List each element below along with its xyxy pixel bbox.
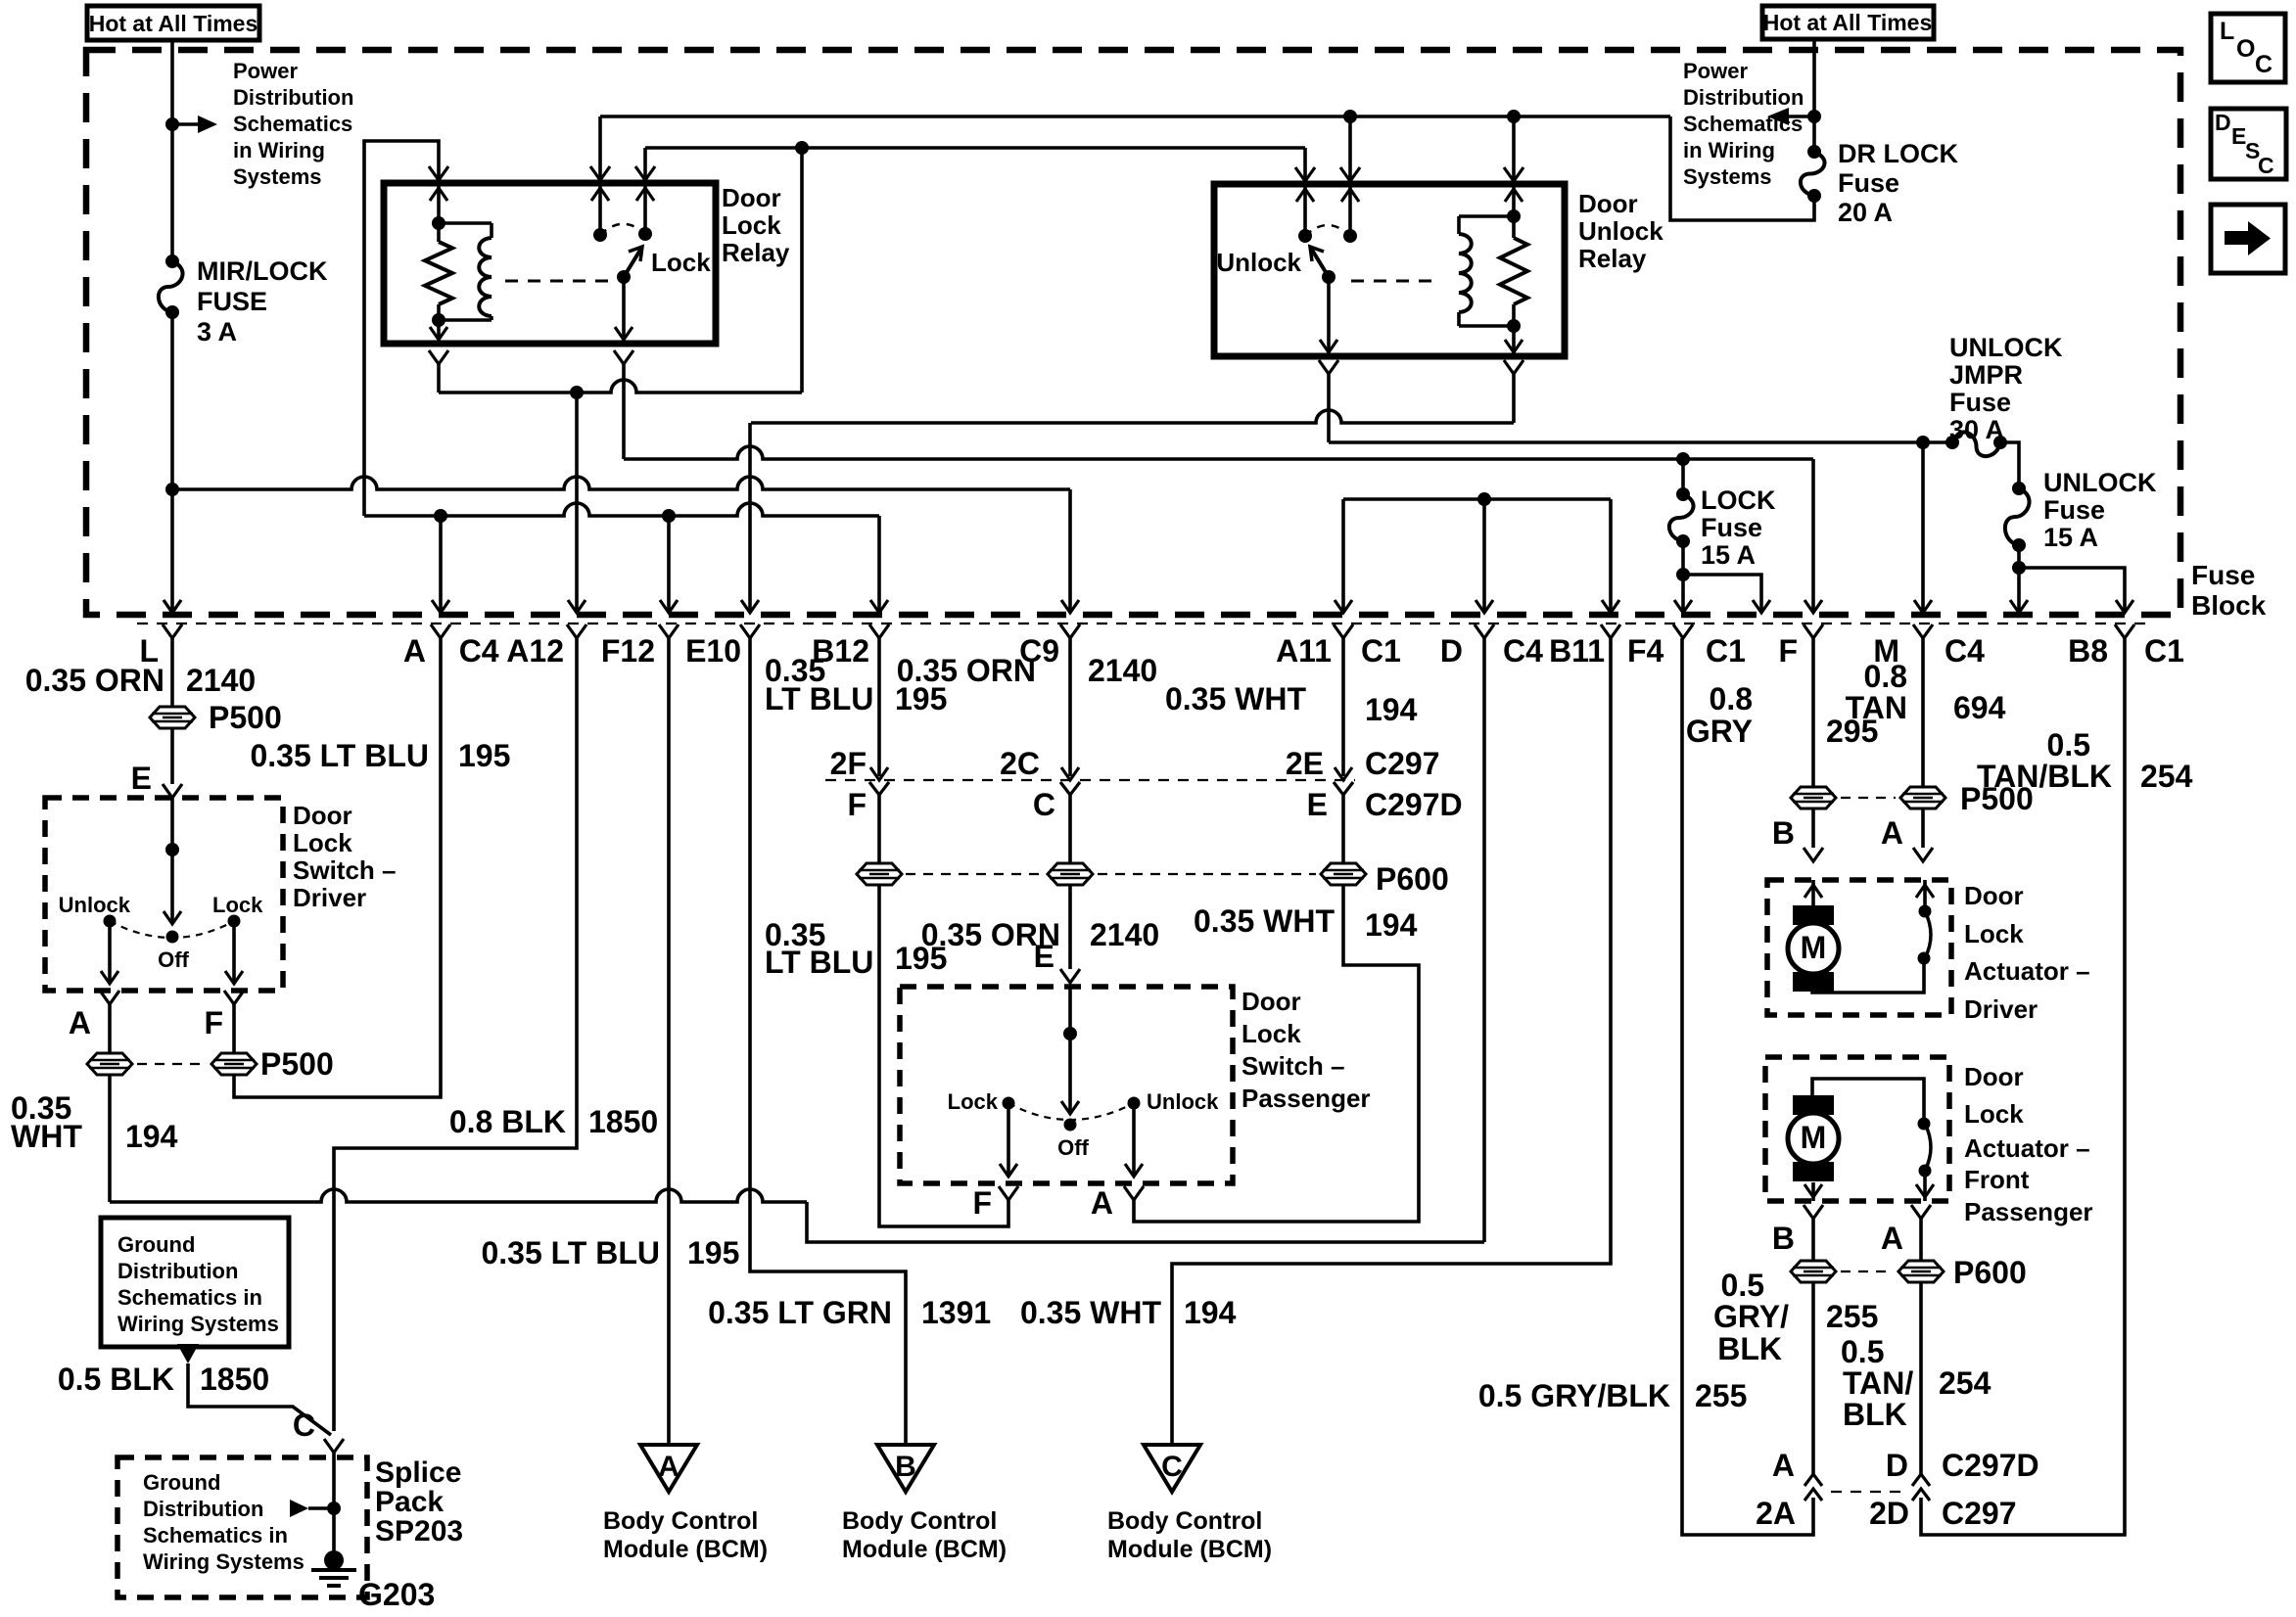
wire riser unlock coil pin: [1512, 116, 1516, 181]
svg-text:F: F: [847, 787, 867, 822]
svg-text:15 A: 15 A: [1701, 540, 1756, 570]
switch lock relay: contacts: [598, 183, 602, 235]
connector grommet P600 E: [1321, 863, 1366, 885]
svg-text:0.35 LT GRN: 0.35 LT GRN: [708, 1295, 892, 1330]
node junction to power distribution note: [165, 117, 179, 131]
switch box Door Lock Switch - Driver: [45, 798, 283, 991]
svg-text:C4: C4: [1945, 633, 1985, 669]
svg-text:Fuse: Fuse: [2191, 560, 2255, 590]
node junction bus 500: [165, 483, 179, 496]
wire pin L down to P500: [170, 638, 174, 707]
pin fork driver actuator A: [1913, 848, 1933, 861]
wire to P500 grommets: [108, 1004, 112, 1053]
svg-text:0.8: 0.8: [1864, 659, 1907, 694]
wire from pin B8/C1 to passenger actuator A: [1921, 638, 2125, 1535]
wire E10 0.35 LT GRN 1391 to BCM B: [750, 638, 906, 1445]
wire bus y401 coil to y151 riser: [437, 364, 441, 393]
svg-text:Door: Door: [1964, 881, 2024, 910]
svg-text:2D: 2D: [1869, 1496, 1909, 1531]
svg-text:C297: C297: [1365, 746, 1440, 781]
svg-text:TAN/: TAN/: [1843, 1365, 1913, 1401]
svg-text:Block: Block: [2191, 590, 2267, 621]
pin fork unlock relay contact1 top: [1295, 167, 1315, 181]
svg-text:Distribution: Distribution: [143, 1497, 263, 1521]
svg-text:C297: C297: [1942, 1496, 2017, 1531]
svg-text:UNLOCK: UNLOCK: [1949, 333, 2063, 362]
node tap C4A12 riser: [570, 386, 584, 399]
svg-text:Driver: Driver: [1964, 994, 2038, 1024]
svg-text:G203: G203: [358, 1577, 435, 1612]
lock relay coil pin wire: [437, 183, 441, 223]
switch box Door Lock Switch - Passenger: [900, 987, 1233, 1183]
pin fork unlock relay common bottom: [1319, 360, 1338, 374]
svg-text:2A: 2A: [1756, 1496, 1796, 1531]
dashed actuation link: [505, 280, 612, 283]
svg-text:Switch –: Switch –: [293, 855, 396, 885]
svg-text:2140: 2140: [186, 663, 256, 698]
svg-text:Pack: Pack: [375, 1486, 444, 1518]
svg-text:C: C: [2255, 51, 2273, 78]
svg-text:2140: 2140: [1090, 917, 1159, 952]
connector grommet P500 GRY: [1791, 787, 1836, 808]
svg-text:F12: F12: [601, 633, 655, 669]
splice pack pointer: [290, 1500, 308, 1517]
wire hot feed right: [1812, 39, 1816, 152]
svg-text:B: B: [1772, 1221, 1795, 1256]
svg-text:TAN: TAN: [1846, 690, 1907, 725]
svg-text:Door: Door: [1242, 987, 1301, 1016]
wire bus to lock relay coil feed (n-shape): [364, 141, 439, 516]
icon box arrow: [2211, 205, 2285, 273]
svg-text:C1: C1: [1706, 633, 1746, 669]
wire WHT 194 jog to passenger switch A: [1134, 885, 1419, 1222]
svg-text:M: M: [1801, 1120, 1827, 1155]
svg-text:C4: C4: [1503, 633, 1543, 669]
svg-text:194: 194: [1365, 907, 1418, 943]
svg-text:P600: P600: [1953, 1255, 2027, 1290]
connector pass-through A/2A: [1804, 1474, 1822, 1486]
passenger switch outputs: [1007, 1109, 1010, 1177]
wire F12 0.35 LT BLU 195 to BCM A: [667, 638, 671, 1445]
svg-text:0.35 WHT: 0.35 WHT: [1194, 903, 1335, 939]
wire DR LOCK fuse output loops to bus y119: [1670, 116, 1814, 220]
pin fork unlock relay coil top: [1504, 167, 1523, 181]
svg-text:F: F: [1778, 633, 1798, 669]
passenger actuator internal wiring: [1812, 1079, 1924, 1124]
svg-text:Unlock: Unlock: [1216, 248, 1301, 277]
pin fork passenger switch A: [1124, 1186, 1144, 1200]
connector grommet P500 (orange wire): [150, 707, 195, 728]
svg-text:GRY/: GRY/: [1713, 1299, 1789, 1334]
svg-text:0.8 BLK: 0.8 BLK: [449, 1104, 566, 1139]
wire drop A: [439, 516, 443, 613]
pin fork passenger switch F: [999, 1186, 1018, 1200]
wire LOCK fuse output to pin C1: [1681, 541, 1685, 613]
wire drop B12: [877, 516, 881, 613]
svg-text:Distribution: Distribution: [233, 85, 353, 110]
wire drop to lock relay contact 1: [598, 116, 602, 180]
driver switch contacts: [104, 915, 117, 928]
svg-text:B: B: [1772, 815, 1795, 851]
svg-text:Unlock: Unlock: [1578, 216, 1663, 246]
svg-text:194: 194: [125, 1119, 178, 1154]
svg-text:FUSE: FUSE: [197, 287, 267, 316]
svg-text:UNLOCK: UNLOCK: [2043, 468, 2157, 497]
svg-text:0.35 ORN: 0.35 ORN: [25, 663, 164, 698]
svg-text:0.5: 0.5: [1841, 1334, 1884, 1369]
connector pass-through D/2D: [1912, 1474, 1930, 1486]
svg-text:Fuse: Fuse: [1949, 388, 2011, 417]
icon box LOC: [2211, 14, 2285, 82]
motor M driver actuator: [1811, 880, 1815, 906]
fuse block pins with arrows and forks: [164, 600, 181, 613]
svg-text:Wiring Systems: Wiring Systems: [143, 1549, 305, 1574]
icon box DESC: [2211, 109, 2286, 179]
svg-text:M: M: [1801, 930, 1827, 965]
svg-text:D: D: [2215, 110, 2231, 135]
wire to driver switch pin E: [170, 728, 174, 784]
fuse block dashed outline: [86, 50, 2180, 615]
svg-text:Door: Door: [1578, 189, 1638, 218]
wire switch common to box bottom: [622, 277, 626, 344]
node tap LOCK fuse: [1676, 452, 1690, 466]
svg-text:Lock: Lock: [293, 828, 352, 857]
BCM connector triangle A: [640, 1445, 697, 1492]
connector grommet P500 TAN: [1900, 787, 1945, 808]
svg-text:E: E: [1034, 939, 1054, 974]
svg-text:Relay: Relay: [722, 238, 790, 267]
svg-text:Splice: Splice: [375, 1456, 461, 1489]
svg-text:Relay: Relay: [1578, 244, 1647, 273]
BCM connector triangle C: [1144, 1445, 1200, 1492]
svg-text:694: 694: [1953, 690, 2006, 725]
svg-text:2C: 2C: [1000, 746, 1040, 781]
svg-text:Lock: Lock: [212, 893, 263, 917]
svg-text:SP203: SP203: [375, 1515, 463, 1548]
svg-text:Passenger: Passenger: [1964, 1197, 2093, 1226]
svg-text:254: 254: [1939, 1365, 1991, 1401]
svg-text:A: A: [658, 1451, 679, 1483]
wire drop E10: [748, 423, 752, 613]
svg-text:254: 254: [2140, 759, 2193, 794]
wire LT BLU to passenger switch F: [879, 885, 1008, 1226]
svg-text:Lock: Lock: [722, 210, 781, 240]
svg-text:A: A: [1091, 1185, 1113, 1221]
wire riser x819 between y151 and y401: [800, 148, 804, 393]
motor M passenger actuator: [1793, 1095, 1834, 1115]
svg-text:E10: E10: [685, 633, 741, 669]
fuse UNLOCK JMPR Fuse 30A: [1945, 436, 1959, 449]
svg-text:Hot at All Times: Hot at All Times: [1763, 10, 1933, 35]
svg-text:255: 255: [1826, 1299, 1878, 1334]
wire drop C9: [1068, 489, 1072, 613]
relay box Door Unlock Relay: [1214, 184, 1565, 356]
svg-text:LOCK: LOCK: [1701, 485, 1776, 515]
svg-text:O: O: [2236, 35, 2255, 63]
switch arm unlock: [1310, 247, 1329, 277]
coil unlock relay: [1512, 184, 1516, 216]
ground G203 symbol: [324, 1550, 344, 1570]
svg-text:C: C: [2258, 153, 2274, 178]
svg-text:0.35 WHT: 0.35 WHT: [1020, 1295, 1161, 1330]
svg-text:in Wiring: in Wiring: [1683, 138, 1775, 162]
svg-text:Passenger: Passenger: [1242, 1084, 1371, 1113]
wire bus y119 switch feed: [600, 115, 1670, 118]
svg-text:0.5: 0.5: [2047, 727, 2090, 762]
svg-text:1850: 1850: [588, 1104, 658, 1139]
svg-text:Lock: Lock: [1242, 1019, 1301, 1048]
bus 194 WHT with hops: [110, 1189, 807, 1202]
svg-text:Systems: Systems: [233, 164, 322, 189]
connector C297 bottom dashed: [1831, 1491, 1907, 1493]
svg-text:B11: B11: [1549, 633, 1605, 669]
wire drop F12: [667, 516, 671, 613]
svg-text:0.5 BLK: 0.5 BLK: [58, 1362, 174, 1397]
splice pack box SP203: [117, 1457, 367, 1597]
svg-text:15 A: 15 A: [2043, 523, 2098, 552]
fuse LOCK Fuse 15A: [1681, 459, 1685, 494]
wire D/C4 drop to bus 194: [1482, 638, 1486, 1242]
connector grommet P600 TAN/BLK: [1898, 1261, 1944, 1282]
node unlock relay coil tap: [1507, 110, 1521, 123]
svg-text:Systems: Systems: [1683, 164, 1772, 189]
svg-text:C1: C1: [1361, 633, 1401, 669]
wire TAN/BLK down to C297 D/2D: [1919, 1282, 1923, 1474]
svg-text:Off: Off: [1057, 1135, 1089, 1160]
svg-text:B: B: [895, 1451, 916, 1483]
connector C297 pass-through 2F/F: [870, 767, 888, 780]
svg-text:195: 195: [458, 738, 510, 773]
svg-text:JMPR: JMPR: [1949, 360, 2023, 390]
svg-text:Lock: Lock: [1964, 919, 2024, 948]
pin fork lock relay coil top: [429, 166, 448, 180]
wire to P600 grommet: [877, 795, 881, 863]
wire bus y500 MIR/LOCK to C9: [172, 477, 1070, 489]
svg-text:P500: P500: [260, 1046, 334, 1082]
svg-text:TAN/BLK: TAN/BLK: [1977, 759, 2112, 794]
svg-text:A: A: [1772, 1448, 1795, 1483]
svg-text:P500: P500: [209, 700, 282, 735]
svg-text:L: L: [2220, 18, 2234, 45]
connector C297 pass-through 2E/E: [1335, 767, 1352, 780]
svg-text:P600: P600: [1376, 861, 1449, 897]
driver actuator switch side: [1812, 958, 1924, 993]
svg-text:F: F: [204, 1005, 223, 1040]
node tap pin M: [1916, 436, 1930, 449]
fuse UNLOCK Fuse 15A: [2012, 482, 2026, 495]
wire 0.5 BLK to splice pack: [188, 1363, 331, 1435]
passenger switch common: [1068, 987, 1072, 1034]
pin fork passenger switch E: [1060, 969, 1080, 983]
wire bus y469 lock common to pin F: [622, 364, 626, 459]
node tap x819: [795, 141, 809, 155]
svg-text:F: F: [972, 1185, 992, 1221]
wire driver A (0.35 WHT 194) down and right: [108, 1075, 112, 1202]
pin fork passenger actuator A: [1911, 1205, 1931, 1219]
svg-text:Distribution: Distribution: [1683, 85, 1804, 110]
svg-text:Lock: Lock: [948, 1089, 999, 1114]
svg-text:Schematics in: Schematics in: [117, 1285, 262, 1310]
passenger switch contacts: [1003, 1097, 1015, 1110]
svg-text:0.35 LT BLU: 0.35 LT BLU: [250, 738, 429, 773]
dashed arc alternate position: [600, 224, 645, 235]
svg-text:A: A: [1881, 815, 1903, 851]
pin fork lock relay common bottom: [614, 350, 633, 364]
node unlock relay contact 2 tap: [1343, 110, 1357, 123]
svg-text:LT BLU: LT BLU: [765, 681, 873, 716]
svg-text:E: E: [1307, 787, 1328, 822]
pin fork driver switch E: [163, 784, 182, 798]
svg-text:C: C: [1161, 1451, 1183, 1483]
svg-text:B8: B8: [2068, 633, 2108, 669]
svg-text:C: C: [1033, 787, 1055, 822]
svg-text:0.35 WHT: 0.35 WHT: [1165, 681, 1306, 716]
ground pointer triangle: [177, 1344, 199, 1363]
wire UNLOCK fuse output: [2017, 545, 2021, 613]
wire bus y432 E10 to unlock coil: [751, 410, 1514, 423]
svg-text:Module (BCM): Module (BCM): [603, 1536, 768, 1563]
wire pin M 0.8 TAN 694 to P500: [1921, 638, 1925, 787]
svg-text:Schematics: Schematics: [233, 112, 352, 136]
wire fuse output down to pin L: [170, 312, 174, 613]
wire bus y452 unlock common to UNLOCK JMPR fuse: [1327, 374, 1331, 442]
svg-text:Body Control: Body Control: [1107, 1507, 1262, 1535]
node tap pin A: [434, 509, 447, 523]
wire bus y151 contact feed: [645, 146, 1305, 150]
arrow pointer to power distribution note: [1778, 115, 1814, 118]
svg-text:in Wiring: in Wiring: [233, 138, 325, 162]
wire A11 down through C297: [1341, 638, 1345, 776]
wire B12 down through C297: [877, 638, 881, 776]
svg-text:A: A: [69, 1005, 91, 1040]
wire bus y527: [364, 503, 879, 516]
svg-text:Fuse: Fuse: [1838, 168, 1899, 198]
svg-text:Door: Door: [1964, 1062, 2024, 1091]
connector grommet P500 F: [211, 1053, 257, 1075]
svg-text:194: 194: [1184, 1295, 1237, 1330]
svg-text:Fuse: Fuse: [2043, 495, 2105, 525]
pin fork lock relay contact1 top: [590, 166, 610, 180]
wire branch to boundary arrow: [1683, 575, 1761, 613]
wire JMPR output to UNLOCK fuse: [2000, 442, 2019, 488]
svg-text:Actuator –: Actuator –: [1964, 956, 2090, 986]
pin fork driver switch A: [100, 991, 119, 1004]
dashed actuation link unlock: [1351, 280, 1437, 283]
svg-text:3 A: 3 A: [197, 317, 237, 346]
svg-text:Door: Door: [722, 183, 781, 212]
svg-text:Schematics in: Schematics in: [143, 1523, 288, 1548]
label box Hot at All Times (right): [1762, 6, 1934, 39]
connector grommet P600 F: [857, 863, 902, 885]
wire drop M: [1921, 442, 1925, 613]
fuse MIR/LOCK FUSE 3A: [165, 254, 179, 268]
connector row thin dashed line: [137, 623, 2154, 624]
splice pack internal wire to ground G203: [332, 1453, 336, 1560]
svg-text:D: D: [1886, 1448, 1908, 1483]
svg-text:0.8: 0.8: [1710, 681, 1753, 716]
connector grommet P600 C: [1048, 863, 1093, 885]
svg-text:1850: 1850: [200, 1362, 269, 1397]
wire C4A12 0.8 BLK 1850: [334, 638, 577, 1431]
wire unlock coil bottom to box bottom: [1512, 326, 1516, 356]
svg-text:Ground: Ground: [143, 1470, 220, 1495]
svg-text:C4 A12: C4 A12: [459, 633, 564, 669]
svg-text:0.35 LT BLU: 0.35 LT BLU: [481, 1235, 660, 1270]
switch arm with arrowhead: [624, 247, 642, 277]
svg-text:Front: Front: [1964, 1165, 2030, 1194]
pin fork driver actuator B: [1804, 848, 1823, 861]
svg-text:Schematics: Schematics: [1683, 112, 1803, 136]
wire pin F 0.8 GRY 295 to P500: [1811, 638, 1815, 787]
svg-text:255: 255: [1695, 1378, 1747, 1413]
svg-text:Unlock: Unlock: [1147, 1089, 1219, 1114]
node tap pin F12: [662, 509, 676, 523]
svg-text:30 A: 30 A: [1949, 415, 2004, 444]
connector C297 pass-through 2C/C: [1061, 767, 1079, 780]
svg-text:Door: Door: [293, 801, 352, 830]
relay box Door Lock Relay: [384, 183, 716, 344]
svg-text:E: E: [131, 761, 152, 796]
svg-text:2F: 2F: [830, 746, 867, 781]
wire C9 down through C297: [1068, 638, 1072, 776]
svg-text:Power: Power: [233, 59, 298, 83]
wire B11 0.35 WHT 194 to BCM C: [1172, 638, 1611, 1445]
svg-text:Unlock: Unlock: [59, 893, 131, 917]
pin fork driver switch F: [224, 991, 244, 1004]
svg-text:0.5 GRY/BLK: 0.5 GRY/BLK: [1478, 1378, 1670, 1413]
svg-text:BLK: BLK: [1717, 1331, 1782, 1366]
wires to P600: [1811, 1219, 1815, 1261]
svg-text:Wiring Systems: Wiring Systems: [117, 1312, 279, 1336]
wires to driver actuator: [1811, 808, 1815, 848]
svg-text:Ground: Ground: [117, 1232, 195, 1257]
wire drop C4A12: [575, 393, 579, 613]
pin fork lock relay coil bottom: [429, 350, 448, 364]
svg-text:DR LOCK: DR LOCK: [1838, 139, 1958, 168]
svg-text:Fuse: Fuse: [1701, 513, 1762, 542]
node junction to power distribution note right: [1807, 110, 1821, 123]
connector grommet P600 GRY/BLK: [1791, 1261, 1836, 1282]
pin fork passenger actuator B: [1804, 1205, 1823, 1219]
connector grommet P500 A: [87, 1053, 132, 1075]
svg-text:0.35 ORN: 0.35 ORN: [897, 653, 1036, 688]
svg-text:LT BLU: LT BLU: [765, 945, 873, 980]
wire from pin C1 to passenger actuator B: [1682, 638, 1813, 1535]
wire branch to pin B8: [2019, 568, 2125, 613]
resistor unlock relay: [1512, 216, 1516, 238]
svg-text:2140: 2140: [1088, 653, 1157, 688]
svg-text:C297D: C297D: [1942, 1448, 2039, 1483]
svg-text:C297D: C297D: [1365, 787, 1463, 822]
svg-text:BLK: BLK: [1843, 1397, 1907, 1432]
resistor lock relay: [437, 223, 441, 242]
switch unlock relay contacts: [1303, 184, 1307, 236]
svg-text:A: A: [403, 633, 426, 669]
wire driver F up to pin A (0.35 LT BLU 195): [234, 638, 441, 1097]
wire hot feed left from Hot at All Times: [170, 40, 174, 261]
svg-text:Module (BCM): Module (BCM): [842, 1536, 1007, 1563]
svg-text:Lock: Lock: [1964, 1099, 2024, 1129]
svg-text:MIR/LOCK: MIR/LOCK: [197, 256, 328, 286]
actuator box Door Lock Actuator - Driver: [1767, 880, 1951, 1015]
actuator box Door Lock Actuator - Front Passenger: [1765, 1057, 1949, 1201]
svg-text:Body Control: Body Control: [842, 1507, 997, 1535]
svg-text:Actuator –: Actuator –: [1964, 1133, 2090, 1163]
pin fork unlock relay coil bottom: [1504, 360, 1523, 374]
svg-text:D: D: [1440, 633, 1463, 669]
svg-text:20 A: 20 A: [1838, 198, 1893, 227]
wire unlock common to box bottom: [1327, 277, 1331, 356]
